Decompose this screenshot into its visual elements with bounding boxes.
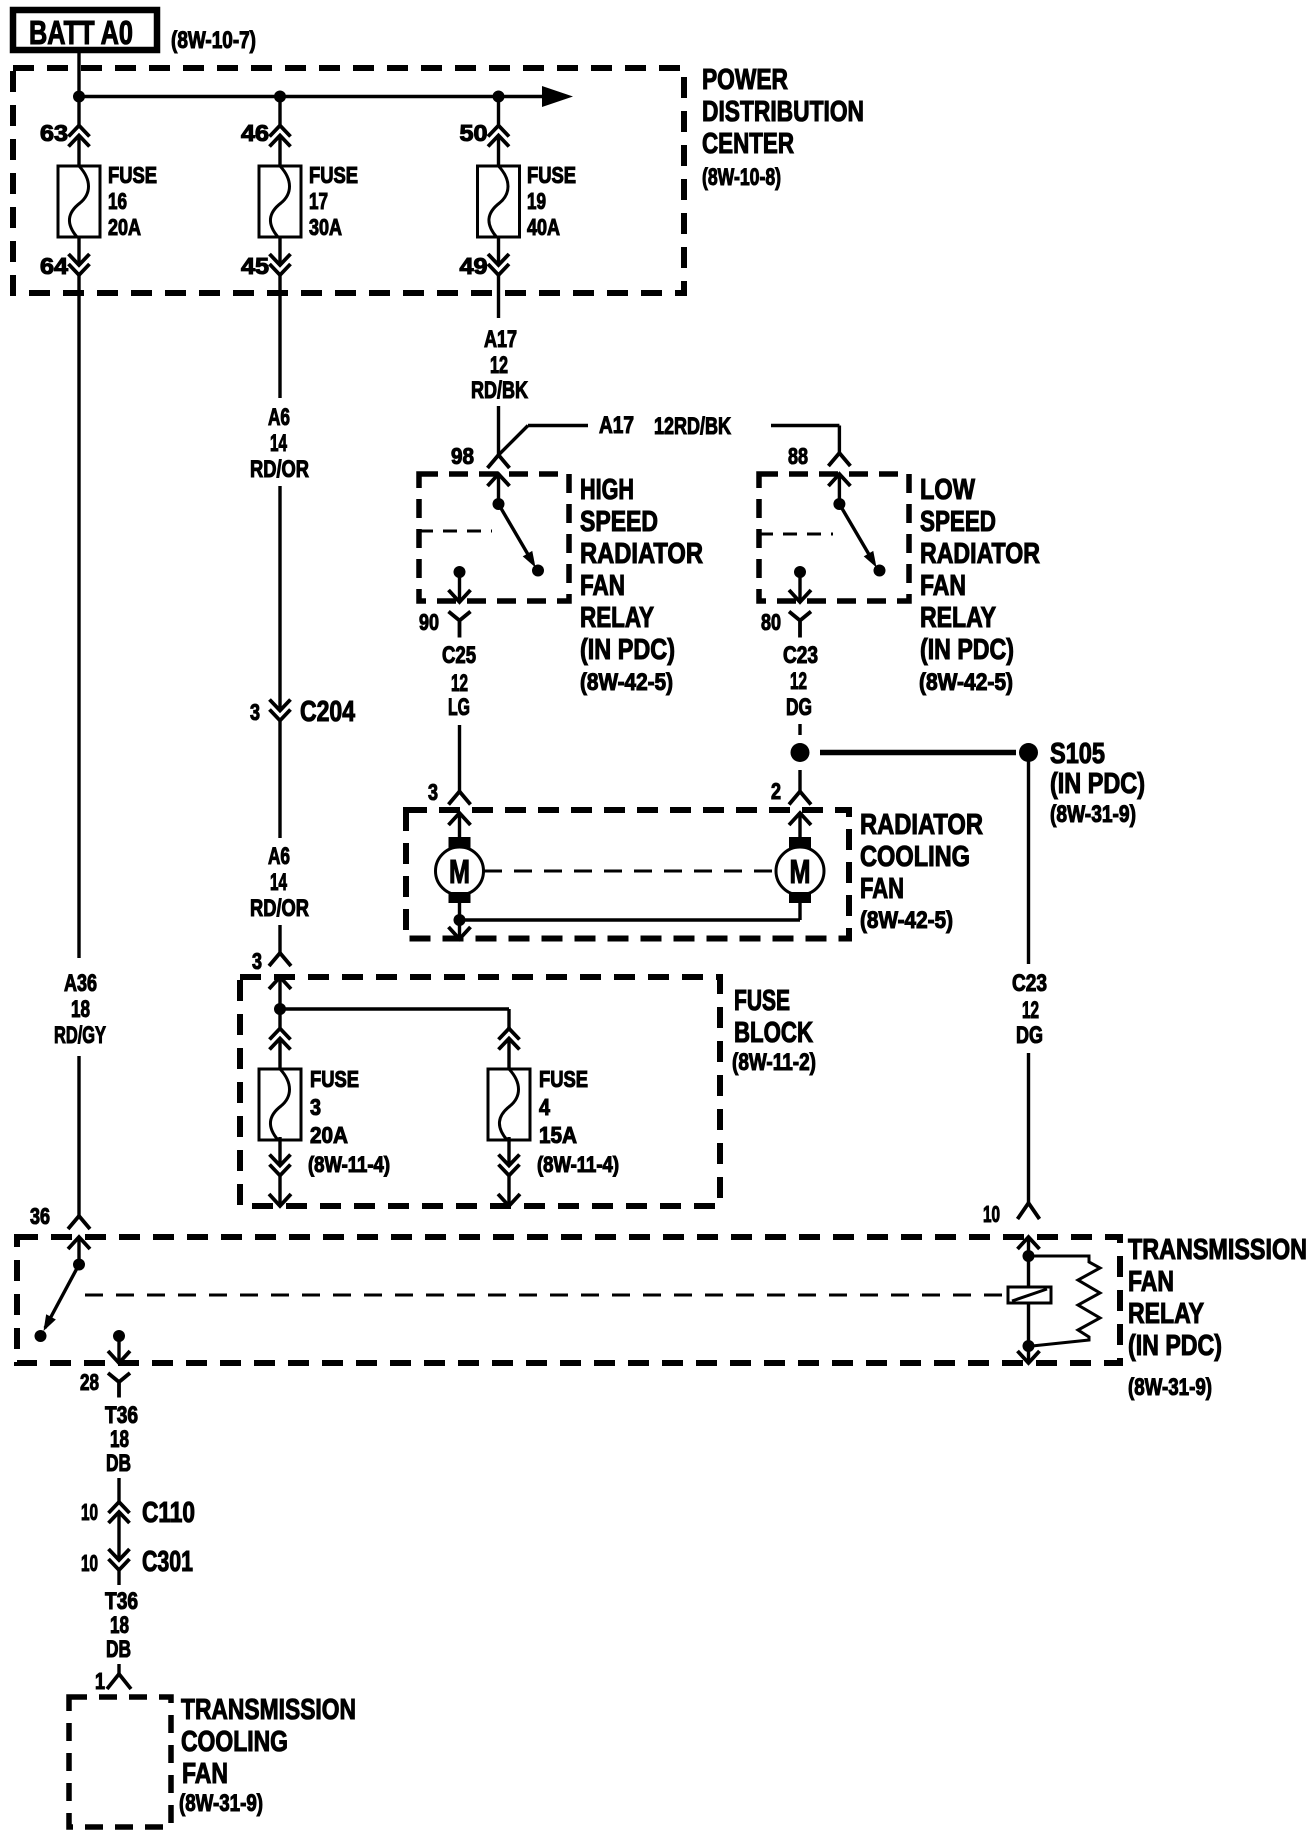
svg-text:30A: 30A [309, 214, 342, 240]
svg-text:RD/GY: RD/GY [54, 1022, 106, 1049]
wire A6 segment 1 [278, 275, 281, 398]
svg-text:DG: DG [1016, 1022, 1043, 1049]
svg-text:RELAY: RELAY [1128, 1298, 1204, 1330]
relay U2 armature dashed link [759, 533, 833, 536]
relay K1 armature dashed link [85, 1294, 1008, 1297]
wire A6 segment 2 [278, 486, 281, 711]
relay K1 coil feed node [1023, 1250, 1035, 1262]
connector pin 1 [95, 1664, 131, 1694]
bus wire with arrow [79, 86, 573, 107]
svg-text:10: 10 [81, 1499, 98, 1525]
label RADIATOR COOLING FAN (8W-42-5) [860, 809, 983, 934]
mechanical link between motors [484, 870, 776, 873]
svg-text:RD/OR: RD/OR [250, 456, 309, 483]
relay K1 coil [1008, 1256, 1051, 1346]
svg-text:3: 3 [310, 1094, 321, 1120]
svg-text:90: 90 [419, 609, 439, 635]
svg-text:(8W-31-9): (8W-31-9) [1128, 1374, 1212, 1401]
svg-text:4: 4 [539, 1094, 550, 1120]
wire branch to A17 12RD/BK callout [499, 426, 589, 456]
relay K1 NO contact node [35, 1330, 47, 1342]
svg-text:12RD/BK: 12RD/BK [654, 413, 731, 440]
svg-text:(8W-42-5): (8W-42-5) [860, 907, 953, 934]
svg-text:COOLING: COOLING [860, 841, 970, 873]
svg-text:FUSE: FUSE [734, 985, 790, 1017]
wire motor M1 to ground node [458, 903, 461, 920]
svg-text:FUSE: FUSE [309, 162, 358, 188]
svg-text:FUSE: FUSE [539, 1066, 588, 1092]
connector pin 98 [451, 443, 510, 504]
svg-text:FUSE: FUSE [310, 1066, 359, 1092]
wire label C25 12 LG [442, 642, 476, 721]
svg-text:80: 80 [761, 609, 781, 635]
fuse 16 20A [58, 162, 157, 240]
svg-text:3: 3 [250, 699, 260, 725]
svg-text:C25: C25 [442, 642, 476, 669]
wire bus to fuse 17 [278, 97, 281, 167]
svg-text:LOW: LOW [920, 474, 976, 506]
svg-text:RD/BK: RD/BK [471, 377, 528, 404]
wire label A36 18 RD/GY [54, 970, 106, 1049]
connector pin 10 [983, 1201, 1040, 1256]
splice S105 node [1019, 743, 1038, 762]
wire label C23 12 DG [783, 642, 818, 721]
svg-text:2: 2 [771, 778, 781, 804]
fuse 4 output connector [499, 1137, 520, 1176]
relay U1 NO contact node [532, 565, 544, 577]
transmission cooling fan box [69, 1697, 171, 1827]
junction node fuse19 feed [493, 91, 505, 103]
svg-text:FUSE: FUSE [108, 162, 157, 188]
wire A17 branch to low speed relay [771, 426, 839, 454]
svg-text:C204: C204 [300, 696, 355, 728]
fuse 4 exit arrow [498, 1176, 520, 1207]
wire C23 lower segment [1027, 1053, 1030, 1203]
wire A17 segment 1 [497, 275, 500, 318]
relay K1 switch arm [39, 1265, 79, 1334]
relay U1 common node [493, 498, 505, 510]
svg-text:88: 88 [788, 443, 808, 469]
svg-text:A17: A17 [599, 412, 634, 439]
svg-text:T36: T36 [105, 1588, 138, 1615]
wire A17 segment 2 [497, 406, 500, 455]
wire ground bus between motors [460, 903, 801, 920]
svg-text:64: 64 [40, 253, 68, 279]
splice S105 junction node [791, 743, 810, 762]
wire A6 segment 4 [278, 925, 281, 953]
fuse block connector above fuse 3 [270, 1009, 291, 1069]
wire from BATT A0 to bus [77, 50, 80, 97]
fuse 3 exit arrow [269, 1176, 291, 1207]
relay K1 output node pin 28 [113, 1330, 125, 1342]
svg-text:CENTER: CENTER [702, 128, 794, 160]
svg-text:SPEED: SPEED [580, 506, 658, 538]
connector pin 28 [80, 1336, 130, 1398]
svg-text:40A: 40A [527, 214, 560, 240]
svg-text:(IN PDC): (IN PDC) [1050, 768, 1145, 800]
svg-text:36: 36 [30, 1203, 50, 1229]
svg-text:COOLING: COOLING [181, 1726, 288, 1758]
wire T36 segment 1 [117, 1478, 120, 1502]
wire A36 upper segment [77, 275, 80, 958]
label TRANSMISSION COOLING FAN (8W-31-9) [179, 1694, 356, 1817]
svg-text:(IN PDC): (IN PDC) [580, 634, 675, 666]
wire bus to fuse 16 [77, 97, 80, 167]
svg-text:FAN: FAN [860, 873, 904, 905]
svg-text:DISTRIBUTION: DISTRIBUTION [702, 96, 864, 128]
svg-text:S105: S105 [1050, 738, 1105, 770]
connector pin 3 fan [428, 779, 471, 837]
svg-text:(8W-11-4): (8W-11-4) [308, 1152, 390, 1177]
fan ground junction node [454, 914, 466, 926]
svg-text:(8W-11-2): (8W-11-2) [732, 1049, 816, 1076]
svg-text:10: 10 [983, 1201, 1000, 1227]
svg-text:18: 18 [110, 1426, 129, 1453]
fuse 17 30A [259, 162, 358, 240]
svg-text:3: 3 [252, 948, 262, 974]
svg-text:(8W-31-9): (8W-31-9) [179, 1790, 263, 1817]
svg-text:(8W-10-8): (8W-10-8) [702, 164, 781, 191]
svg-text:14: 14 [270, 869, 287, 896]
fuse 3 output connector [270, 1137, 291, 1176]
junction node fuse17 feed [274, 91, 286, 103]
motor M2 low speed [776, 837, 824, 903]
svg-text:TRANSMISSION: TRANSMISSION [1128, 1234, 1307, 1266]
wire label A6 14 RD/OR lower [250, 843, 309, 922]
svg-text:A6: A6 [268, 843, 290, 870]
fan ground exit arrow [449, 920, 471, 939]
svg-text:(8W-31-9): (8W-31-9) [1050, 801, 1136, 828]
wire C23 to splice S105 [798, 724, 801, 735]
svg-text:RADIATOR: RADIATOR [920, 538, 1040, 570]
relay U1 label HIGH SPEED RADIATOR FAN RELAY (IN PDC) (8W-42-5) [580, 474, 703, 696]
svg-text:POWER: POWER [702, 64, 788, 96]
fuse block feed junction node [274, 1003, 286, 1015]
svg-text:(8W-10-7): (8W-10-7) [171, 27, 256, 54]
label TRANSMISSION FAN RELAY (IN PDC) (8W-31-9) [1128, 1234, 1307, 1401]
svg-text:C23: C23 [783, 642, 818, 669]
connector pin 45 [241, 237, 291, 279]
reference (8W-10-7) [171, 27, 256, 54]
wire T36 segment 2 [117, 1514, 120, 1560]
label FUSE BLOCK (8W-11-2) [732, 985, 816, 1076]
svg-text:63: 63 [40, 120, 68, 146]
connector pin 46 [241, 120, 291, 147]
svg-text:28: 28 [80, 1369, 99, 1395]
wire bus to fuse 19 [497, 97, 500, 167]
svg-text:12: 12 [490, 352, 508, 379]
svg-text:BLOCK: BLOCK [734, 1017, 813, 1049]
junction node fuse16 feed [73, 91, 85, 103]
fuse 3 20A (8W-11-4) [259, 1066, 390, 1177]
relay U1 output node [454, 566, 466, 578]
connector pin 2 fan [771, 778, 811, 837]
svg-text:SPEED: SPEED [920, 506, 996, 538]
fuse block connector above fuse 4 [499, 1027, 520, 1069]
svg-text:FAN: FAN [580, 570, 625, 602]
svg-text:3: 3 [428, 779, 438, 805]
fuse 19 40A [478, 162, 577, 240]
connector pin 49 [460, 237, 510, 279]
svg-text:A17: A17 [484, 326, 517, 353]
wire C25 to fan motor pin 3 [458, 725, 461, 792]
svg-text:FUSE: FUSE [527, 162, 576, 188]
label A17 12RD/BK [599, 412, 731, 440]
wire A6 segment 3 [278, 720, 281, 838]
svg-text:(8W-11-4): (8W-11-4) [537, 1152, 619, 1177]
relay U2 common node [833, 498, 845, 510]
connector pin 36 [30, 1203, 90, 1265]
svg-text:(8W-42-5): (8W-42-5) [580, 669, 673, 696]
relay U2 switch arm [839, 504, 881, 570]
svg-text:DG: DG [786, 694, 812, 721]
wire label T36 18 DB upper [105, 1402, 138, 1477]
svg-text:BATT A0: BATT A0 [29, 14, 133, 51]
relay U1 armature dashed link [419, 530, 492, 533]
svg-text:19: 19 [527, 188, 546, 214]
wire to splice S105 [820, 750, 1016, 756]
connector C110 pin 10 [81, 1497, 195, 1529]
svg-text:RD/OR: RD/OR [250, 895, 309, 922]
wire label A6 14 RD/OR upper [250, 404, 309, 483]
wire A36 lower segment [77, 1056, 80, 1216]
radiator cooling fan box [406, 810, 849, 939]
svg-text:14: 14 [270, 430, 287, 457]
connector C301 pin 10 [81, 1546, 193, 1578]
svg-text:RADIATOR: RADIATOR [580, 538, 703, 570]
svg-text:45: 45 [241, 253, 269, 279]
relay U1 switch arm [499, 504, 541, 570]
svg-text:12: 12 [451, 670, 468, 697]
connector pin 88 [788, 443, 850, 504]
svg-text:15A: 15A [539, 1122, 577, 1148]
svg-text:TRANSMISSION: TRANSMISSION [181, 1694, 356, 1726]
relay K1 common node [73, 1259, 85, 1271]
svg-text:46: 46 [241, 120, 269, 146]
power distribution center box [13, 68, 684, 293]
battery feed BATT A0 box [13, 10, 157, 51]
svg-text:20A: 20A [310, 1122, 348, 1148]
wire C23 from S105 down [1027, 760, 1030, 964]
connector pin 63 [40, 120, 90, 147]
svg-text:20A: 20A [108, 214, 141, 240]
svg-text:DB: DB [106, 1450, 131, 1477]
connector pin 90 [419, 572, 471, 638]
transmission fan relay box K1 [17, 1237, 1120, 1363]
svg-text:12: 12 [790, 668, 807, 695]
svg-text:A6: A6 [268, 404, 290, 431]
label S105 (IN PDC) (8W-31-9) [1050, 738, 1145, 828]
wire T36 segment 3 [117, 1570, 120, 1585]
relay U2 label LOW SPEED RADIATOR FAN RELAY (IN PDC) (8W-42-5) [919, 474, 1040, 696]
svg-text:18: 18 [71, 996, 90, 1023]
svg-text:16: 16 [108, 188, 127, 214]
svg-text:(8W-42-5): (8W-42-5) [919, 669, 1013, 696]
svg-text:10: 10 [81, 1550, 98, 1576]
svg-text:C301: C301 [142, 1546, 193, 1578]
svg-text:M: M [790, 853, 811, 890]
svg-text:1: 1 [95, 1668, 105, 1694]
svg-text:LG: LG [448, 694, 470, 721]
resistor R1 parallel with coil [1029, 1256, 1101, 1346]
svg-text:17: 17 [309, 188, 328, 214]
connector pin 64 [40, 237, 90, 279]
svg-text:HIGH: HIGH [580, 474, 634, 506]
relay K1 coil ground node [1023, 1340, 1035, 1352]
svg-text:50: 50 [460, 120, 488, 146]
svg-text:49: 49 [460, 253, 488, 279]
svg-text:C23: C23 [1012, 970, 1047, 997]
fuse block box [240, 977, 720, 1206]
svg-text:RADIATOR: RADIATOR [860, 809, 983, 841]
connector pin 80 [761, 572, 811, 638]
svg-text:18: 18 [110, 1612, 129, 1639]
svg-text:A36: A36 [64, 970, 97, 997]
svg-text:(IN PDC): (IN PDC) [920, 634, 1014, 666]
fuse 4 15A (8W-11-4) [488, 1066, 619, 1177]
svg-text:C110: C110 [142, 1497, 195, 1529]
svg-text:DB: DB [106, 1636, 131, 1663]
svg-text:FAN: FAN [182, 1758, 228, 1790]
svg-text:(IN PDC): (IN PDC) [1128, 1330, 1222, 1362]
svg-text:M: M [449, 853, 470, 890]
wire fuse block branch [280, 1009, 509, 1028]
svg-text:FAN: FAN [920, 570, 966, 602]
svg-text:12: 12 [1022, 997, 1039, 1024]
motor M1 high speed [436, 837, 484, 903]
relay U2 output node [794, 566, 806, 578]
wire label C23 12 DG right [1012, 970, 1047, 1049]
PDC label POWER DISTRIBUTION CENTER (8W-10-8) [702, 64, 864, 191]
low speed radiator fan relay box U2 [759, 474, 909, 601]
wire S105 down to pin 2 [798, 770, 801, 792]
svg-text:RELAY: RELAY [920, 602, 996, 634]
wire label A17 12 RD/BK [471, 326, 528, 404]
svg-text:T36: T36 [105, 1402, 138, 1429]
connector pin 50 [460, 120, 510, 147]
relay K1 ground exit arrow [1018, 1346, 1040, 1363]
connector pin 3 fuse block [252, 948, 291, 1009]
svg-text:98: 98 [451, 443, 474, 469]
high speed radiator fan relay box U1 [419, 474, 569, 601]
svg-text:FAN: FAN [1128, 1266, 1174, 1298]
relay U2 NO contact node [874, 565, 886, 577]
svg-text:RELAY: RELAY [580, 602, 654, 634]
wire label T36 18 DB lower [105, 1588, 138, 1663]
connector C204 pin 3 [250, 696, 355, 728]
